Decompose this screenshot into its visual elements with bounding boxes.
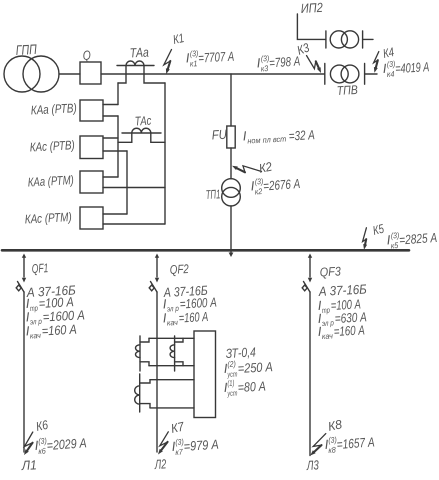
wire TAa left secondary drop [118,66,126,84]
wire TAc left secondary drop [118,133,132,142]
transformer TP1 [222,179,241,206]
svg-text:К8: К8 [327,417,344,434]
svg-text:=4019 А: =4019 А [395,59,430,76]
current transformer TAc [122,128,161,133]
svg-text:уст: уст [226,388,238,398]
wire CT group2 top to ZT [150,379,194,381]
wire relay KAc(PTM) bottom [103,223,165,225]
breaker QF1 connection arrow [22,254,26,258]
svg-text:ТАа: ТАа [129,45,149,61]
svg-text:FU: FU [211,127,227,143]
current transformer TA3 zero sequence [135,374,140,412]
wire GPP to Q [59,73,80,75]
wire TP1 to bus [230,206,232,253]
svg-text:=160 А: =160 А [41,322,77,339]
svg-text:(1): (1) [227,379,235,388]
current transformer TAa [117,61,154,66]
svg-text:Л2: Л2 [154,456,167,472]
wire CT group2 bottom to ZT [150,407,194,409]
svg-text:QF2: QF2 [169,262,189,277]
transformer TPV [330,65,359,83]
breaker QF1 [16,278,26,292]
svg-text:ТПВ: ТПВ [336,83,358,98]
relay KAa(PTM) [80,171,103,193]
relay KAa(PTV) [80,100,103,121]
fuse FU [227,126,235,148]
relay KAc(PTM) [80,207,103,229]
svg-text:Q: Q [82,48,91,63]
svg-text:К2: К2 [258,160,274,176]
wire TA3 top tap [140,380,150,383]
wire CT secondary V3 [126,151,128,214]
svg-text:КАа (РТМ): КАа (РТМ) [27,173,74,189]
wire relay KAa(PTM) bottom [103,187,165,189]
svg-text:QF1: QF1 [31,261,48,276]
svg-text:к2: к2 [255,187,264,197]
breaker QF2 [149,278,159,292]
svg-text:=2676 А: =2676 А [263,176,301,194]
svg-text:ГПП: ГПП [15,42,38,58]
wire TAc right secondary drop [151,133,165,142]
svg-text:=2825 А: =2825 А [399,230,438,248]
svg-text:К7: К7 [170,419,186,436]
svg-text:К5: К5 [371,221,386,237]
wire TA1 top tap [140,338,149,342]
svg-text:=7707 А: =7707 А [198,49,235,66]
svg-text:ТП1: ТП1 [205,187,220,202]
svg-text:тр: тр [30,304,39,313]
wire QF2 upper [156,258,158,278]
svg-text:КАс (РТМ): КАс (РТМ) [24,210,72,226]
svg-text:КАа (РТВ): КАа (РТВ) [30,101,77,117]
svg-text:=160 А: =160 А [178,309,208,326]
relay unit ZT-0.4 [194,331,216,418]
breaker QF2 connection arrow [155,254,159,258]
svg-text:=798 А: =798 А [269,53,301,70]
wire relay KAc(PTV) bottom [103,150,127,152]
wire QF1 lower [23,292,25,452]
wire relay KAa(PTV) top [103,104,118,106]
current transformer TA2 feeder2 [170,336,175,371]
wire TA3 bottom tap [140,404,150,408]
transformer IP2 terminals [326,31,363,48]
bus 0.4kV [2,249,409,252]
svg-text:ИП2: ИП2 [300,0,323,16]
wire QF1 upper [23,258,25,278]
svg-text:=160 А: =160 А [333,322,365,339]
svg-text:=2029 А: =2029 А [46,435,87,453]
svg-text:=80 А: =80 А [237,379,266,395]
node K6 [24,432,33,455]
wire QF2 lower [156,292,158,452]
wire TA2 bottom tap [175,362,183,366]
svg-text:ТАс: ТАс [134,114,152,129]
node K3 [307,56,322,74]
svg-text:к1: к1 [190,59,198,68]
node K2 [232,166,262,173]
svg-text:=979 А: =979 А [183,437,219,454]
node K1 [164,50,172,75]
wire QF3 lower [309,292,311,456]
svg-text:=32 А: =32 А [288,127,315,143]
svg-text:Л3: Л3 [306,457,320,473]
wire relay KAc(PTV) top [103,137,118,139]
wire FU to TP1 [230,148,232,179]
svg-text:ЗТ-0,4: ЗТ-0,4 [225,344,256,361]
wire CT secondary V1 upper [117,83,119,105]
wire QF3 upper [309,258,311,278]
wire relay KAa(PTV) bottom [103,115,118,117]
node K8 [310,434,326,456]
svg-text:К4: К4 [382,45,396,61]
svg-text:кач: кач [322,331,333,341]
svg-text:кач: кач [30,331,41,341]
wire relay KAc(PTM) top [103,213,127,215]
svg-text:ном пл вст: ном пл вст [247,134,287,145]
svg-text:КАс (РТВ): КАс (РТВ) [29,138,75,154]
breaker QF3 [302,278,312,292]
svg-text:(2): (2) [227,360,236,369]
transformer GPP [4,56,59,92]
transformer TPV terminals [325,64,365,85]
wire CT secondary V1 lower [117,116,119,177]
wire TPV right [365,73,377,75]
svg-text:=250 А: =250 А [237,359,273,376]
svg-text:кач: кач [167,318,178,328]
wire main 10kV line [101,73,325,75]
relay KAc(PTV) [80,136,103,159]
node K7 [158,432,168,455]
svg-text:к8: к8 [328,445,337,455]
svg-text:тр: тр [322,306,331,315]
svg-text:К1: К1 [172,31,186,47]
wire IP2 transformer right [363,38,373,40]
wire CT group1 top to ZT [149,337,194,339]
svg-text:к5: к5 [391,241,400,251]
breaker Q [80,62,101,84]
wire feeder drop to TP1 [230,74,232,126]
current transformer TA1 feeder2 [136,336,141,371]
svg-text:к4: к4 [387,70,395,79]
wire TA2 top tap [175,338,183,342]
svg-text:к3: к3 [261,64,270,74]
svg-text:QF3: QF3 [319,264,341,279]
junction arrow at bus [229,253,234,258]
breaker QF3 connection arrow [308,254,312,258]
wire TAa right secondary drop [144,66,165,84]
svg-text:уст: уст [226,369,238,379]
svg-text:к7: к7 [175,447,184,457]
wire from IP2 [297,14,326,39]
svg-text:=1657 А: =1657 А [336,434,375,452]
svg-text:К6: К6 [35,418,50,434]
svg-text:Л1: Л1 [20,457,37,473]
svg-text:к6: к6 [38,446,47,456]
transformer IP2 windings [330,31,358,48]
wire relay KAa(PTM) top [103,176,118,178]
wire CT group1 bottom to ZT [149,365,194,367]
wire TA1 bottom tap [140,362,149,366]
node K4 [374,52,379,73]
wire CT secondary V2 [164,83,166,224]
node K5 [363,228,368,250]
